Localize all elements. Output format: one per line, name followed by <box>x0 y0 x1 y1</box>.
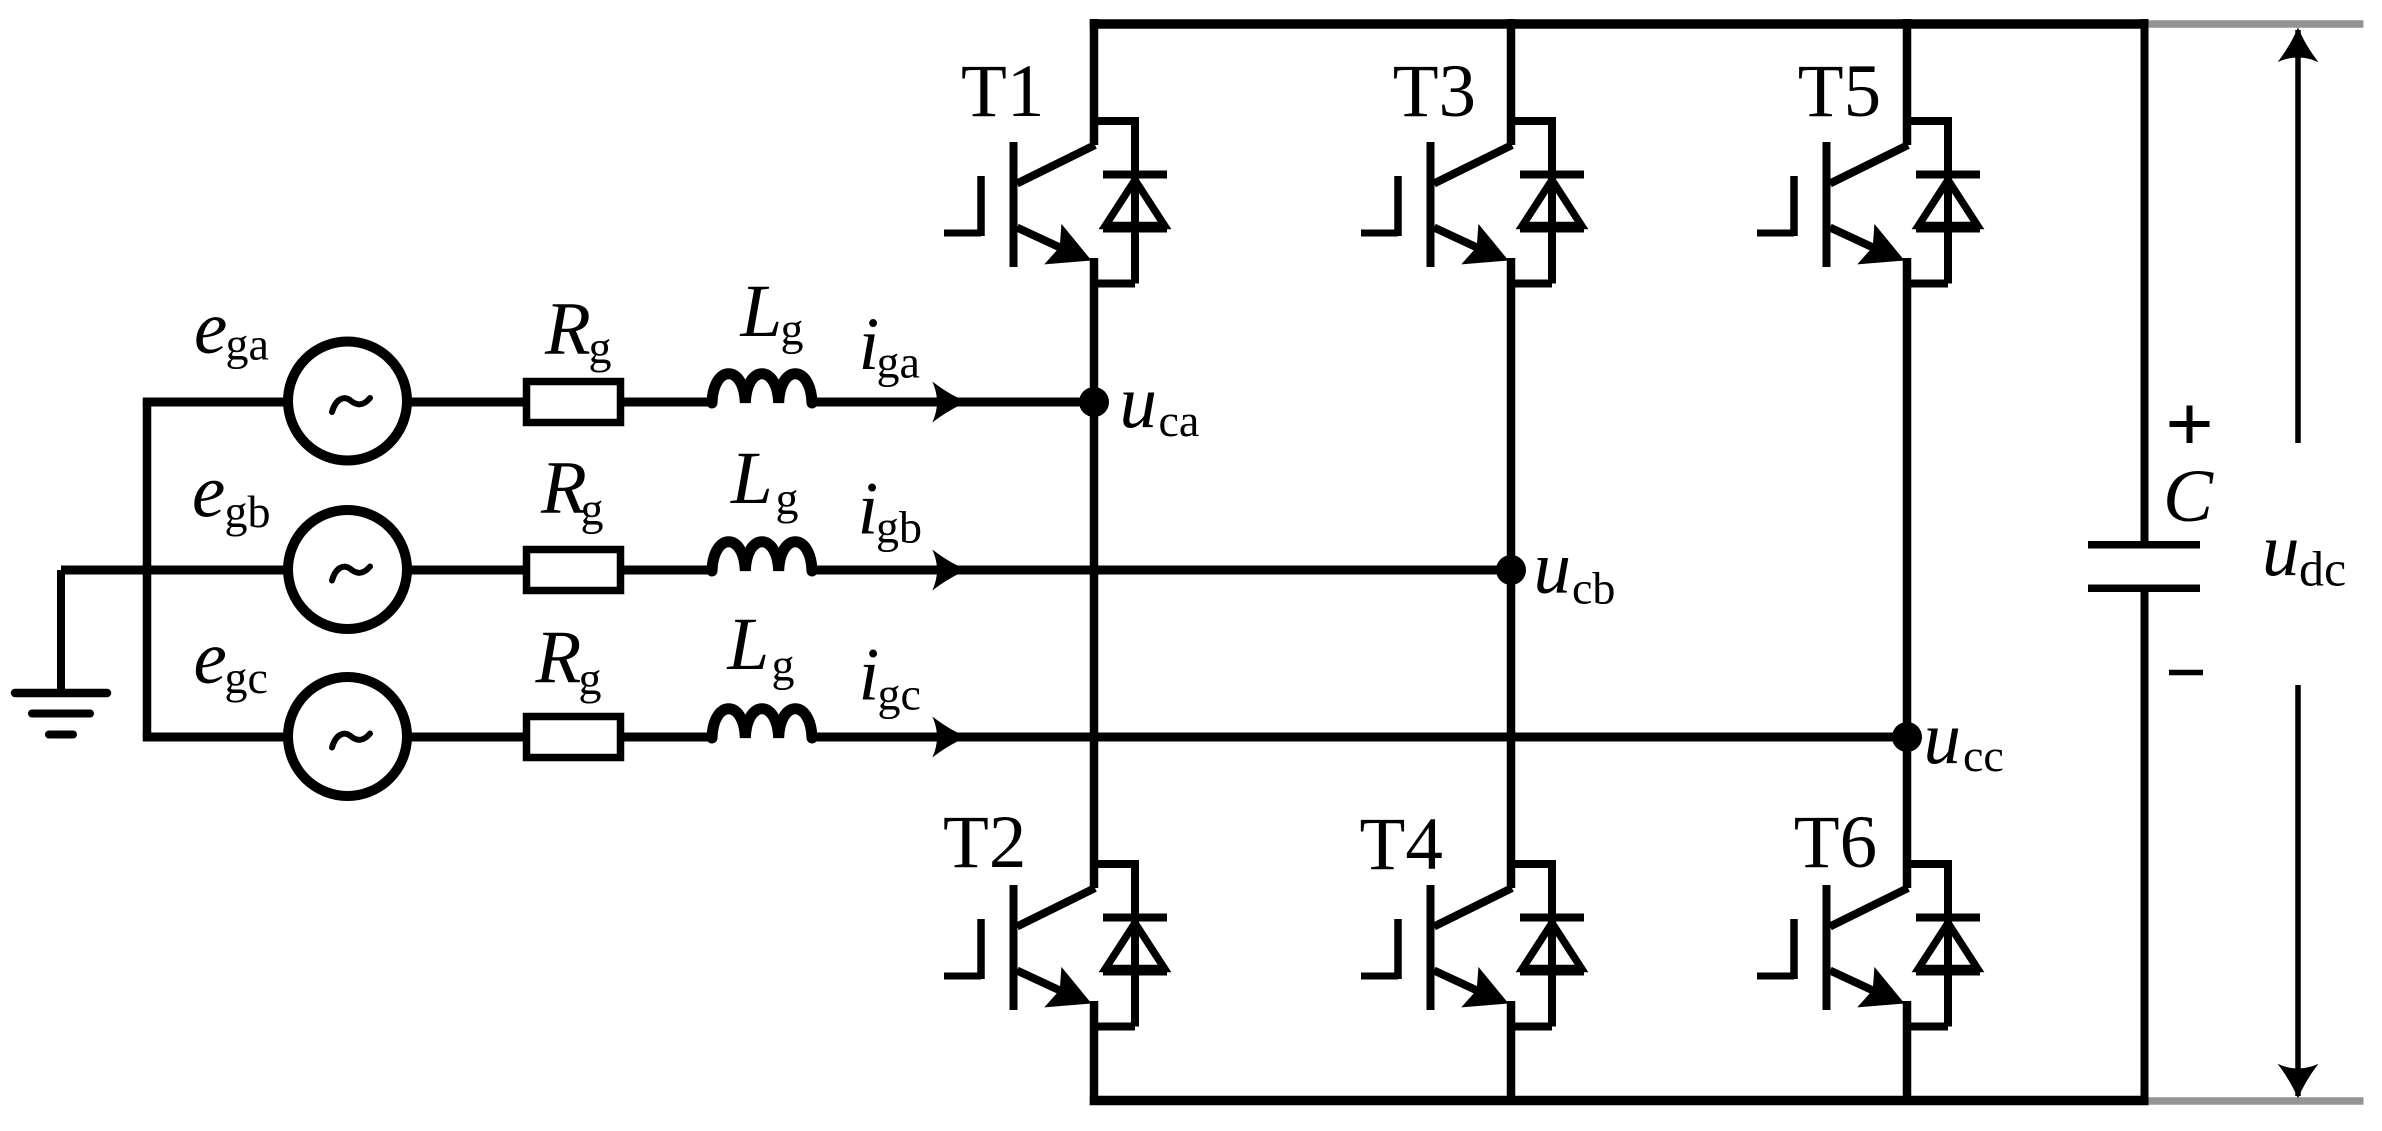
AC source e_gc (circle) <box>288 677 407 796</box>
svg-text:g: g <box>581 484 604 535</box>
svg-text:u: u <box>1534 527 1572 610</box>
wire: leg 3 lower section (T6 to bottom rail) <box>1903 1001 1912 1105</box>
svg-text:T4: T4 <box>1360 803 1443 886</box>
svg-text:dc: dc <box>2299 541 2346 597</box>
inductor L_g phase b <box>712 542 812 571</box>
gray negative DC rail extension <box>2146 1097 2364 1105</box>
wire: phase a inductor to node u_ca <box>812 398 1094 407</box>
wire: DC bus vertical lower <box>2141 589 2149 1098</box>
wire: leg 1 middle section through node u_ca <box>1090 258 1099 888</box>
svg-text:ga: ga <box>226 319 269 370</box>
u_dc arrow shaft lower <box>2295 685 2301 1096</box>
svg-text:u: u <box>1924 697 1962 780</box>
tilde of source e_gb <box>332 567 370 581</box>
capacitor C bottom plate <box>2088 585 2200 593</box>
ground bar 1 <box>15 689 107 698</box>
transistor T3 (IGBT with antiparallel diode) <box>1361 117 1584 284</box>
junction node u_cb <box>1496 555 1526 585</box>
svg-text:e: e <box>194 617 227 700</box>
svg-text:T1: T1 <box>961 50 1044 133</box>
svg-text:gc: gc <box>225 652 268 703</box>
transistor T1 (IGBT with antiparallel diode) <box>944 117 1167 284</box>
svg-text:T5: T5 <box>1798 50 1881 133</box>
gray positive DC rail extension <box>2146 20 2364 28</box>
wire: leg 2 lower section (T4 to bottom rail) <box>1507 1001 1516 1105</box>
svg-text:C: C <box>2163 455 2214 538</box>
svg-text:e: e <box>192 451 225 534</box>
svg-text:g: g <box>776 473 799 524</box>
wire: phase c source to resistor <box>405 733 529 742</box>
inductor L_g phase c <box>712 709 812 738</box>
wire: leg 2 middle section through node u_cb <box>1507 258 1516 888</box>
svg-text:L: L <box>730 437 773 520</box>
svg-text:T3: T3 <box>1393 50 1476 133</box>
wire: leg 3 middle section through node u_cc <box>1903 258 1912 888</box>
AC source e_ga (circle) <box>288 342 407 461</box>
svg-text:i: i <box>859 634 880 717</box>
tilde of source e_ga <box>332 398 370 412</box>
wire: phase a resistor to inductor <box>621 398 716 407</box>
junction node u_ca <box>1079 387 1109 417</box>
inductor L_g phase a <box>712 374 812 403</box>
transistor T6 (IGBT with antiparallel diode) <box>1757 860 1980 1027</box>
wire: phase a from neutral to source <box>143 398 290 407</box>
wire: phase b source to resistor <box>405 566 529 575</box>
wire: bottom (-) DC rail <box>1090 1096 2149 1106</box>
wire: neutral bus vertical <box>143 402 152 737</box>
wire: DC bus vertical upper <box>2141 19 2149 545</box>
ground lead <box>57 570 65 691</box>
svg-text:T2: T2 <box>943 801 1026 884</box>
resistor R_g phase b <box>527 550 621 591</box>
transistor T4 (IGBT with antiparallel diode) <box>1361 860 1584 1027</box>
current arrow i_ga <box>932 382 967 423</box>
wire: phase b inductor to node u_cb <box>812 566 1511 575</box>
capacitor C top plate <box>2088 541 2200 549</box>
AC source e_gb (circle) <box>288 510 407 629</box>
svg-text:gb: gb <box>225 486 271 537</box>
transistor T5 (IGBT with antiparallel diode) <box>1757 117 1980 284</box>
svg-text:T6: T6 <box>1794 801 1877 884</box>
plus sign <box>2170 421 2210 427</box>
wire: phase c resistor to inductor <box>621 733 716 742</box>
wire: phase b resistor to inductor <box>621 566 716 575</box>
svg-text:R: R <box>544 288 591 371</box>
wire: leg 3 upper section (rail to T5) <box>1903 19 1912 145</box>
svg-text:gb: gb <box>876 502 922 553</box>
u_dc arrowhead down <box>2278 1064 2319 1099</box>
svg-text:cb: cb <box>1572 563 1615 614</box>
svg-text:cc: cc <box>1963 730 2004 781</box>
svg-text:e: e <box>194 287 227 370</box>
transistor T2 (IGBT with antiparallel diode) <box>944 860 1167 1027</box>
ground bar 2 <box>32 710 90 718</box>
junction node u_cc <box>1892 722 1922 752</box>
wire: leg 2 upper section (rail to T3) <box>1507 19 1516 145</box>
svg-text:L: L <box>727 603 770 686</box>
svg-text:ga: ga <box>877 337 920 388</box>
svg-text:g: g <box>772 640 795 691</box>
resistor R_g phase c <box>527 717 621 758</box>
ground bar 3 <box>49 731 73 739</box>
u_dc arrow shaft upper <box>2295 30 2301 443</box>
wire: leg 1 upper section (rail to T1) <box>1090 19 1099 145</box>
svg-text:g: g <box>589 322 612 373</box>
wire: phase b from neutral to source <box>61 566 290 575</box>
tilde of source e_gc <box>332 734 370 748</box>
wire: phase a source to resistor <box>405 398 529 407</box>
svg-text:u: u <box>2262 509 2300 592</box>
svg-text:u: u <box>1120 361 1158 444</box>
wire: phase c inductor to node u_cc <box>812 733 1907 742</box>
wire: leg 1 lower section (T2 to bottom rail) <box>1090 1001 1099 1105</box>
svg-text:ca: ca <box>1159 395 1200 446</box>
resistor R_g phase a <box>527 382 621 423</box>
u_dc arrowhead up <box>2278 28 2319 63</box>
svg-text:g: g <box>579 653 602 704</box>
current arrow i_gb <box>932 550 967 591</box>
current arrow i_gc <box>932 717 967 758</box>
svg-text:g: g <box>781 304 804 355</box>
svg-text:R: R <box>535 616 582 699</box>
svg-text:gc: gc <box>878 669 921 720</box>
wire: top (+) DC rail <box>1090 19 2149 29</box>
svg-text:L: L <box>740 270 783 353</box>
wire: phase c from neutral to source <box>143 733 290 742</box>
minus sign <box>2169 670 2203 676</box>
